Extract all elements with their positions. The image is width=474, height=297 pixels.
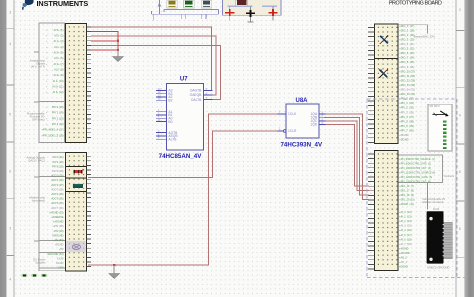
- svg-text:3: 3: [9, 227, 11, 231]
- svg-text:U7: U7: [180, 77, 188, 83]
- svg-text:GROUND: GROUND: [52, 234, 63, 237]
- svg-text:+DIO_9 (26): +DIO_9 (26): [399, 65, 414, 69]
- svg-text:+DIO_5 (22): +DIO_5 (22): [399, 47, 414, 51]
- svg-text:5: 5: [459, 227, 461, 231]
- svg-text:+PFI_2 (35): +PFI_2 (35): [399, 106, 414, 110]
- svg-text:+DIO_11 (28): +DIO_11 (28): [399, 74, 415, 78]
- svg-text:OALTB: OALTB: [191, 98, 202, 102]
- svg-text:+PFI_7 (40): +PFI_7 (40): [399, 128, 414, 132]
- svg-text:AI 5+ (11): AI 5+ (11): [52, 85, 63, 89]
- svg-text:U8A: U8A: [295, 98, 308, 104]
- svg-text:AO 1 (22): AO 1 (22): [53, 161, 64, 164]
- svg-text:1CLR: 1CLR: [288, 129, 297, 133]
- svg-text:+AI_0 (12): +AI_0 (12): [399, 211, 412, 214]
- svg-text:SHIELD GROUND: SHIELD GROUND: [427, 266, 449, 270]
- svg-text:+3.3V: +3.3V: [57, 257, 64, 260]
- svg-text:+DIO_12 (29): +DIO_12 (29): [399, 78, 415, 82]
- svg-text:+DIO_17 (8): +DIO_17 (8): [399, 189, 414, 192]
- svg-text:+PFI_5/DIO_5 (18): +PFI_5/DIO_5 (18): [42, 133, 64, 137]
- svg-text:+DIO_14 (31): +DIO_14 (31): [399, 88, 415, 92]
- svg-text:+DO 4 (29): +DO 4 (29): [51, 193, 64, 196]
- svg-text:+5V: +5V: [59, 248, 64, 251]
- svg-text:+DO 2 (27): +DO 2 (27): [51, 184, 64, 187]
- svg-text:+DIO_1 (18): +DIO_1 (18): [399, 28, 414, 32]
- svg-text:Banana/BNC, 52%: Banana/BNC, 52%: [414, 35, 436, 38]
- svg-text:-15V (49): -15V (49): [53, 230, 64, 233]
- svg-text:+DIO_19 (10): +DIO_19 (10): [399, 198, 414, 201]
- svg-text:+AI_2 (14): +AI_2 (14): [399, 220, 412, 223]
- svg-text:+PFI_8/DIO/CTR0_SOURCE (1): +PFI_8/DIO/CTR0_SOURCE (1): [399, 158, 435, 161]
- svg-text:+DO 1 (26): +DO 1 (26): [51, 179, 64, 182]
- svg-text:+DO 5 (30): +DO 5 (30): [51, 198, 64, 201]
- svg-text:B2: B2: [168, 99, 172, 103]
- svg-text:DGND: DGND: [56, 262, 64, 265]
- svg-text:+DIO_4 (21): +DIO_4 (21): [399, 42, 414, 46]
- svg-text:+AOGND: +AOGND: [399, 252, 410, 255]
- svg-text:6: 6: [9, 170, 11, 174]
- svg-text:+DGND: +DGND: [399, 138, 408, 142]
- svg-text:B0: B0: [168, 120, 172, 124]
- svg-text:OAGTB: OAGTB: [190, 89, 202, 93]
- svg-text:J10-B: J10-B: [433, 208, 440, 211]
- svg-text:+DIO_15 (32): +DIO_15 (32): [399, 92, 415, 96]
- svg-text:+AO_0: +AO_0: [399, 257, 407, 260]
- svg-text:+15V (48): +15V (48): [52, 225, 63, 228]
- svg-text:+AI_4 (16): +AI_4 (16): [399, 229, 412, 232]
- svg-text:+DO 6 (31): +DO 6 (31): [51, 202, 64, 205]
- svg-text:AI 0+ (1): AI 0+ (1): [53, 28, 63, 32]
- svg-text:+DIO_7 (24): +DIO_7 (24): [399, 56, 414, 60]
- svg-text:(AI 0 .. AI 7): (AI 0 .. AI 7): [31, 65, 45, 69]
- svg-text:+PFI_3 (36): +PFI_3 (36): [399, 110, 414, 114]
- svg-text:PFI 2 (15): PFI 2 (15): [52, 116, 64, 120]
- svg-text:GROUND (53): GROUND (53): [47, 253, 63, 256]
- svg-text:PFI 9 (24): PFI 9 (24): [52, 170, 63, 173]
- svg-text:+DO 0 (25): +DO 0 (25): [51, 175, 64, 178]
- svg-text:+AI_5 (17): +AI_5 (17): [399, 234, 412, 237]
- svg-text:AI 2- (6): AI 2- (6): [54, 56, 64, 60]
- svg-text:Supplies: Supplies: [35, 261, 46, 265]
- svg-text:+DIO_18 (9): +DIO_18 (9): [399, 194, 414, 197]
- svg-text:AI 1+ (3): AI 1+ (3): [53, 39, 63, 43]
- svg-text:+PFI_11/DIO/CTR1_SOURCE (4): +PFI_11/DIO/CTR1_SOURCE (4): [399, 171, 435, 174]
- svg-text:OAEQB: OAEQB: [190, 93, 203, 97]
- svg-text:GND: GND: [58, 267, 64, 270]
- svg-text:+DIO_2 (19): +DIO_2 (19): [399, 33, 414, 37]
- svg-text:PROTOTYPING BOARD: PROTOTYPING BOARD: [389, 1, 442, 7]
- svg-text:+PFI_10/DIO/CTR0_OUT (3): +PFI_10/DIO/CTR0_OUT (3): [399, 167, 431, 170]
- svg-text:PFI 0 (13): PFI 0 (13): [52, 105, 64, 109]
- svg-text:74HC85AN_4V: 74HC85AN_4V: [159, 153, 203, 160]
- svg-text:+AIGND: +AIGND: [399, 247, 409, 250]
- svg-text:+PFI_1 (34): +PFI_1 (34): [399, 101, 414, 105]
- svg-text:1CLK: 1CLK: [288, 112, 297, 116]
- svg-text:+AISENSE: +AISENSE: [51, 216, 64, 219]
- svg-text:AI 1- (4): AI 1- (4): [54, 45, 64, 49]
- svg-text:+DO 7 (32): +DO 7 (32): [51, 207, 64, 210]
- svg-text:(Multisim simulated): (Multisim simulated): [422, 201, 443, 204]
- svg-text:DAC0 / DAC1: DAC0 / DAC1: [28, 159, 45, 163]
- svg-text:+DIO_13 (30): +DIO_13 (30): [399, 83, 415, 87]
- svg-text:AI 3- (8): AI 3- (8): [54, 68, 64, 72]
- svg-text:+PFI_4/DIO_4 (17): +PFI_4/DIO_4 (17): [42, 128, 64, 132]
- svg-text:AI 0- (2): AI 0- (2): [54, 34, 64, 38]
- svg-text:+PFI_6 (39): +PFI_6 (39): [399, 124, 414, 128]
- svg-text:+DIO_6 (23): +DIO_6 (23): [399, 51, 414, 55]
- svg-text:+DIO_16 (7): +DIO_16 (7): [399, 185, 414, 188]
- svg-text:+PFI_12/DIO/CTR1_GATE (5): +PFI_12/DIO/CTR1_GATE (5): [399, 176, 432, 179]
- svg-text:+PFI_4 (37): +PFI_4 (37): [399, 115, 414, 119]
- svg-text:+DIO_10 (27): +DIO_10 (27): [399, 69, 415, 73]
- svg-text:+DO 3 (28): +DO 3 (28): [51, 188, 64, 191]
- svg-text:+AI_7 (19): +AI_7 (19): [399, 243, 412, 246]
- svg-text:+DIO_8 (25): +DIO_8 (25): [399, 60, 414, 64]
- svg-text:5: 5: [9, 113, 11, 117]
- svg-text:PFI 8 (23): PFI 8 (23): [52, 165, 63, 168]
- svg-text:AI 2+ (5): AI 2+ (5): [53, 51, 63, 55]
- svg-text:+5V (52): +5V (52): [54, 239, 64, 242]
- svg-text:4: 4: [459, 113, 461, 117]
- svg-text:3: 3: [9, 11, 11, 15]
- svg-text:AI 4- (10): AI 4- (10): [53, 79, 64, 83]
- svg-text:74HC393N_4V: 74HC393N_4V: [280, 141, 322, 148]
- svg-text:INSTRUMENTS: INSTRUMENTS: [37, 0, 89, 8]
- svg-text:AI 3+ (7): AI 3+ (7): [53, 62, 63, 66]
- svg-text:PFI 3 (16): PFI 3 (16): [52, 122, 64, 126]
- svg-text:ALTB: ALTB: [168, 137, 177, 141]
- svg-text:AI 5- (12): AI 5- (12): [53, 90, 64, 94]
- svg-text:+AI_1 (13): +AI_1 (13): [399, 216, 412, 219]
- svg-text:+AO_1: +AO_1: [399, 261, 407, 264]
- svg-text:4: 4: [459, 57, 461, 61]
- svg-text:+AI_6 (18): +AI_6 (18): [399, 238, 412, 241]
- svg-text:+AOGND: +AOGND: [53, 221, 64, 224]
- svg-text:SW DIP-8: SW DIP-8: [430, 106, 441, 108]
- svg-text:AI 4+ (9): AI 4+ (9): [53, 73, 63, 77]
- svg-text:+DGND: +DGND: [55, 244, 64, 247]
- svg-text:+DGND: +DGND: [399, 266, 408, 269]
- svg-text:+AI_3 (15): +AI_3 (15): [399, 225, 412, 228]
- svg-text:+DGND: +DGND: [399, 133, 408, 137]
- svg-text:3: 3: [459, 8, 461, 12]
- svg-text:5: 5: [459, 170, 461, 174]
- svg-text:+PFI_5 (38): +PFI_5 (38): [399, 119, 414, 123]
- svg-text:+AIGND (33): +AIGND (33): [49, 211, 64, 214]
- svg-text:1QD: 1QD: [310, 123, 317, 127]
- svg-text:(simulated): (simulated): [32, 199, 45, 203]
- svg-text:4: 4: [9, 278, 11, 282]
- svg-text:PFI 1 (14): PFI 1 (14): [52, 111, 64, 115]
- svg-text:AO 0 (21): AO 0 (21): [53, 156, 64, 159]
- svg-text:(PFI lines): (PFI lines): [32, 118, 44, 122]
- svg-text:+DGND (11): +DGND (11): [399, 203, 414, 206]
- svg-text:+DIO_3 (20): +DIO_3 (20): [399, 37, 414, 41]
- svg-text:4: 4: [9, 42, 11, 46]
- svg-text:+PFI_13/DIO/CTR1_OUT (6): +PFI_13/DIO/CTR1_OUT (6): [399, 181, 431, 184]
- svg-text:+PFI_9/DIO/CTR0_GATE (2): +PFI_9/DIO/CTR0_GATE (2): [399, 162, 431, 165]
- svg-text:Counters: Counters: [444, 175, 455, 178]
